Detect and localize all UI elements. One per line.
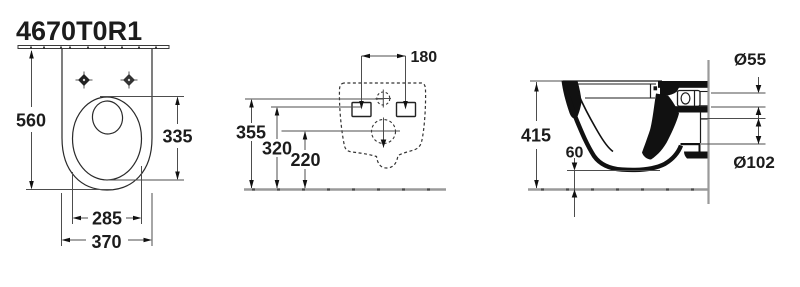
svg-text:560: 560 <box>16 111 46 131</box>
dimension 415 <box>530 81 564 188</box>
fixing hole right (square) <box>397 103 416 117</box>
svg-text:320: 320 <box>262 139 292 159</box>
dimension 285 (inner width) <box>73 166 142 224</box>
trap section black blob <box>642 94 679 160</box>
bowl front outer curve + outlet bottom U (thick) <box>565 85 681 170</box>
flush inlet (Ø55) socket <box>678 91 708 107</box>
seat oval (inner rim, top view) <box>73 97 142 180</box>
rim end separator <box>650 84 652 98</box>
dimension 560 (left vertical) <box>26 51 113 190</box>
dimension 220 <box>282 131 401 188</box>
fixing hole left (square) <box>352 103 371 117</box>
dimension 320 <box>271 107 362 188</box>
dimension 335 (right vertical) <box>100 97 184 181</box>
bowl front inner line <box>579 96 613 152</box>
svg-text:220: 220 <box>290 150 320 170</box>
water inlet small circle (dashed) <box>376 90 392 108</box>
outlet pipe top short line <box>700 118 708 120</box>
fixing bolt left <box>76 72 93 89</box>
svg-text:415: 415 <box>521 126 551 146</box>
dashed rear outline of WC <box>339 83 425 168</box>
dimension 370 (outer width) <box>62 193 153 246</box>
dimension 60 <box>567 158 660 217</box>
rim bottom line <box>585 97 655 99</box>
dimension 355 <box>245 99 384 188</box>
dimension 180 (hole spacing) <box>362 56 406 106</box>
top attachment black band <box>658 81 708 88</box>
floor line (middle view) <box>244 188 446 190</box>
wall strip (top view wall section) <box>18 46 169 49</box>
dimension Ø102 <box>701 119 766 145</box>
svg-text:Ø55: Ø55 <box>734 50 766 69</box>
svg-text:4670T0R1: 4670T0R1 <box>16 16 142 46</box>
outlet interior back edge <box>700 112 702 143</box>
svg-text:335: 335 <box>162 127 192 147</box>
wall strip hatch ticks <box>31 47 156 49</box>
svg-text:180: 180 <box>411 49 438 66</box>
WC side profile: top surface line <box>563 80 662 82</box>
svg-text:Ø102: Ø102 <box>733 153 775 172</box>
svg-text:60: 60 <box>566 145 584 162</box>
outlet big circle (dashed) <box>372 118 396 148</box>
svg-text:285: 285 <box>92 209 122 229</box>
svg-text:370: 370 <box>91 232 121 252</box>
seat upper line <box>576 83 656 85</box>
seat hinge dot <box>654 86 658 90</box>
flush water oval (small inner oval) <box>90 99 124 136</box>
rim front wedge (section) <box>562 81 582 120</box>
wall line <box>707 60 709 204</box>
outlet pipe back corner <box>699 144 701 153</box>
WC body outline (top view) <box>62 49 152 190</box>
outlet pipe top edge line <box>681 143 701 145</box>
floor line (side view) <box>528 188 709 190</box>
fixing bolt right <box>121 72 138 89</box>
dimension Ø55 <box>711 77 766 144</box>
middle black band (between inlet and outlet) <box>656 106 708 112</box>
jet slit white lens <box>615 151 626 158</box>
outlet pipe bottom band to wall (black) <box>684 152 708 159</box>
